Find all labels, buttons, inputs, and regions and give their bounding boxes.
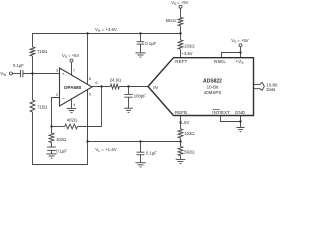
svg-text:0.1µF: 0.1µF [145, 41, 156, 46]
ground VL bypass [135, 163, 145, 167]
resistor 562 bottom body [178, 146, 183, 155]
wire top bypass cap [140, 34, 142, 42]
wire 102 bottom to VL [180, 138, 182, 142]
wire GND pin down [240, 116, 242, 128]
svg-text:REFB: REFB [175, 110, 187, 115]
svg-text:715Ω: 715Ω [37, 49, 47, 54]
resistor 102 top body [178, 40, 183, 49]
wire 100pF to ground [128, 97, 130, 108]
svg-text:715Ω: 715Ω [37, 104, 47, 109]
svg-text:5: 5 [89, 91, 91, 96]
op-amp U1 OPA680 body [60, 68, 93, 106]
junction VH ladder node [179, 32, 181, 34]
svg-text:402Ω: 402Ω [67, 118, 77, 123]
svg-text:40MSPS: 40MSPS [204, 90, 222, 95]
svg-text:102Ω: 102Ω [184, 43, 194, 48]
junction pin8 rail [86, 32, 88, 34]
resistor 102 bottom body [178, 129, 183, 138]
svg-text:402Ω: 402Ω [56, 137, 66, 142]
resistor RG 402 body [49, 133, 54, 143]
svg-text:100pF: 100pF [134, 93, 146, 98]
wire VL to 562 bottom [180, 142, 182, 147]
svg-text:3: 3 [56, 68, 58, 73]
junction VL bypass node [139, 140, 141, 142]
svg-text:7: 7 [73, 68, 75, 73]
junction pin5 VL node [86, 140, 88, 142]
ADC U2 ADS822 body [148, 58, 254, 116]
wire cap to +input [23, 73, 60, 75]
capacitor input coupling plates [20, 70, 22, 77]
wire pin4 down [71, 99, 73, 108]
svg-text:0.1µF: 0.1µF [56, 149, 67, 154]
svg-text:8: 8 [89, 76, 91, 81]
svg-text:562Ω: 562Ω [184, 149, 194, 154]
wire feedback left [52, 126, 65, 128]
wire INT/EXT to GND tie [221, 116, 241, 122]
junction filter node [127, 85, 129, 87]
wire VL rail [88, 141, 181, 143]
resistor 562 top body [178, 17, 183, 25]
wire top bypass to ground [140, 44, 142, 53]
resistor RF 402 body [65, 124, 78, 129]
wire RS to ADC IN [119, 86, 148, 88]
wire 562 bottom to ground [180, 156, 182, 160]
svg-text:+1.5V: +1.5V [178, 120, 189, 125]
junction RSEL tie node [239, 51, 241, 53]
svg-text:REFT: REFT [175, 59, 187, 64]
junction VL ladder node [179, 140, 181, 142]
wire VL cap to ground [140, 155, 142, 163]
ground 100pF [124, 108, 133, 112]
resistor 715 upper body [30, 47, 35, 56]
capacitor 100pF plates [124, 93, 132, 95]
junction bias node [31, 72, 33, 74]
ground RG cap [46, 154, 56, 158]
junction output node [100, 85, 102, 87]
terminal VS op-amp [70, 59, 73, 62]
svg-text:562Ω: 562Ω [166, 18, 176, 23]
svg-text:0.1µF: 0.1µF [13, 63, 24, 68]
wire VL bypass cap [140, 142, 142, 153]
svg-text:+3.5V: +3.5V [182, 51, 193, 56]
junction top bypass node [139, 32, 141, 34]
output bus arrow [254, 82, 264, 90]
junction INT/EXT tie node [239, 120, 241, 122]
svg-text:102Ω: 102Ω [184, 131, 194, 136]
capacitor RG 0.1uF plates [47, 146, 56, 148]
wire RSEL +VS tie [222, 53, 241, 58]
svg-text:10-Bit: 10-Bit [207, 84, 220, 89]
wire feedback up to output [78, 87, 102, 127]
wire cap to ground [51, 150, 53, 154]
svg-text:2: 2 [56, 92, 58, 97]
wire pin5 to VL [87, 90, 89, 142]
capacitor VL 0.1uF plates [137, 151, 145, 153]
wire +5V terminal to +VS pin [240, 47, 242, 58]
wire rail to 102 top [180, 34, 182, 41]
wire 562 to rail [180, 26, 182, 34]
wire node to RG [51, 127, 53, 134]
ground op-amp pin4 [67, 108, 77, 112]
ground 562 bottom [176, 159, 186, 163]
ground top bypass [135, 53, 145, 57]
wire pin7 supply [71, 62, 73, 75]
wire pin2 inverting [52, 98, 60, 127]
wire 102 to REFT [180, 49, 182, 58]
svg-text:INT/EXT: INT/EXT [212, 110, 230, 115]
wire pin8 to rail [87, 34, 89, 85]
resistor 715 lower body [30, 100, 35, 112]
ground ADC GND pin [236, 128, 244, 132]
svg-text:+: + [62, 72, 65, 77]
terminal VS ladder [179, 5, 182, 8]
svg-text:6: 6 [95, 80, 97, 85]
wire VIN to cap [12, 73, 20, 75]
wire VH rail [33, 34, 181, 48]
svg-text:0.1µF: 0.1µF [146, 150, 157, 155]
svg-text:Data: Data [267, 87, 277, 92]
wire bias mid [32, 56, 34, 100]
resistor RS 24.9 body [110, 84, 119, 89]
svg-text:IN: IN [153, 85, 158, 90]
svg-text:OPA680: OPA680 [64, 85, 82, 90]
wire REFB down [180, 116, 182, 129]
svg-text:−: − [62, 96, 65, 102]
wire bias bottom loop to VL [33, 90, 88, 165]
wire +5V to 562 top [180, 8, 182, 17]
wire output [92, 86, 110, 88]
terminal VS ADC [239, 44, 242, 47]
terminal VIN [9, 72, 12, 75]
svg-text:RSEL: RSEL [214, 59, 226, 64]
wire 100pF top [128, 87, 130, 95]
capacitor top 0.1uF plates [137, 41, 145, 43]
svg-text:GND: GND [235, 110, 246, 115]
svg-text:24.9Ω: 24.9Ω [110, 77, 121, 82]
wire RG to cap [51, 143, 53, 148]
junction gain node [50, 125, 52, 127]
